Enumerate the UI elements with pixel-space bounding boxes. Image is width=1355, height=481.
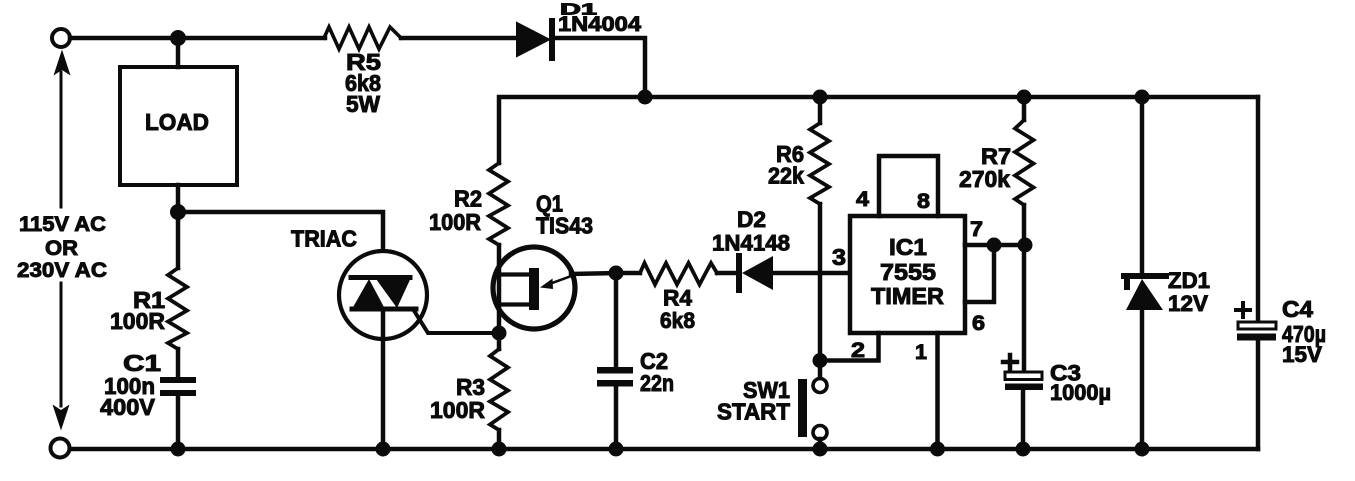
node TRIAC/rail xyxy=(376,442,391,457)
node pin7/R7 xyxy=(1018,238,1033,253)
wire SW1 to rail xyxy=(818,439,823,449)
node R3/rail xyxy=(492,442,507,457)
wire ZD1 to rail xyxy=(1140,310,1145,449)
svg-text:R2: R2 xyxy=(454,186,482,212)
svg-text:1N4004: 1N4004 xyxy=(558,13,641,36)
terminal top-left xyxy=(52,29,70,47)
transistor Q1 circle xyxy=(493,247,575,329)
node R6/rail xyxy=(813,90,828,105)
Q1 emitter arrow xyxy=(548,275,574,285)
capacitor C2 xyxy=(597,367,633,374)
resistor R1 xyxy=(168,268,187,349)
resistor R6 xyxy=(810,123,829,204)
svg-text:IC1: IC1 xyxy=(889,234,927,260)
diode D2 xyxy=(742,256,773,290)
node ZD1/rail xyxy=(1135,90,1150,105)
svg-text:TIMER: TIMER xyxy=(871,283,944,309)
arrow 115/230V lower xyxy=(60,283,63,406)
capacitor C1 xyxy=(160,377,196,383)
svg-text:270k: 270k xyxy=(959,166,1010,192)
svg-text:15V: 15V xyxy=(1282,342,1322,367)
svg-text:6k8: 6k8 xyxy=(660,308,695,333)
resistor R3 xyxy=(490,349,508,430)
zener ZD1 triangle xyxy=(1126,279,1163,310)
wire node to C2 xyxy=(614,273,619,367)
wire D2 to pin 3 xyxy=(773,271,850,276)
resistor R4 xyxy=(640,263,717,285)
resistor R5 xyxy=(324,27,401,49)
triac circle xyxy=(339,251,427,339)
node C2/rail xyxy=(609,442,624,457)
wire triac to rail xyxy=(381,310,386,449)
svg-text:TIS43: TIS43 xyxy=(536,213,593,239)
node C1/rail xyxy=(171,442,186,457)
capacitor C3 xyxy=(1005,372,1042,380)
node R7/rail xyxy=(1017,90,1032,105)
svg-text:TRIAC: TRIAC xyxy=(291,226,357,252)
wire C2 to rail xyxy=(614,387,619,449)
svg-text:START: START xyxy=(717,399,790,425)
wire to LOAD top xyxy=(176,38,181,67)
svg-text:3: 3 xyxy=(832,244,846,270)
wire C4 branch xyxy=(1256,97,1261,449)
switch SW1 bottom contact xyxy=(813,426,827,440)
load box xyxy=(120,67,237,185)
svg-text:8: 8 xyxy=(917,190,930,213)
svg-text:230V AC: 230V AC xyxy=(17,258,107,282)
triac triangle down xyxy=(375,278,411,309)
wire R1 to C1 xyxy=(176,349,181,377)
wire ZD1 top xyxy=(1140,97,1145,276)
terminal bottom-left xyxy=(51,439,70,458)
triac MT2 bar xyxy=(351,275,410,280)
wire LOAD bottom to node xyxy=(176,185,181,212)
svg-text:ZD1: ZD1 xyxy=(1168,268,1210,293)
svg-text:12V: 12V xyxy=(1168,291,1208,316)
svg-text:2: 2 xyxy=(851,339,865,362)
Q1 base bar xyxy=(529,268,539,310)
wire node to TRIAC xyxy=(178,212,383,278)
svg-text:115V AC: 115V AC xyxy=(19,212,106,236)
svg-text:22n: 22n xyxy=(640,370,674,396)
svg-text:1: 1 xyxy=(915,341,927,364)
diode D1 xyxy=(517,23,549,56)
svg-text:5W: 5W xyxy=(346,91,380,117)
triac gate wire xyxy=(413,309,499,333)
triac triangle up xyxy=(352,279,385,309)
Q1 base connectors xyxy=(499,275,529,305)
svg-text:22k: 22k xyxy=(768,163,804,189)
capacitor C3 plus xyxy=(1003,355,1017,369)
pin 7 wire xyxy=(965,243,1025,248)
wire R5 to D1 xyxy=(401,36,518,41)
wire R6 top xyxy=(818,97,823,123)
diode D1 cathode bar xyxy=(549,21,555,58)
pin 2 wire xyxy=(820,333,879,361)
svg-text:1000µ: 1000µ xyxy=(1050,380,1111,405)
switch SW1 top contact xyxy=(813,379,827,393)
wire R4 to D2 xyxy=(717,271,737,276)
resistor R7 xyxy=(1015,120,1034,205)
arrow 115/230V upper xyxy=(60,72,63,207)
svg-text:100R: 100R xyxy=(429,209,481,235)
wire R7 to C3 xyxy=(1022,205,1027,370)
switch SW1 blade xyxy=(798,379,807,437)
wire top rail left to R5 xyxy=(70,36,325,41)
node gate/R3 xyxy=(492,326,507,341)
diode D2 cathode bar xyxy=(736,256,742,290)
svg-text:1N4148: 1N4148 xyxy=(712,231,790,256)
svg-text:LOAD: LOAD xyxy=(145,109,209,135)
node ZD1/rail xyxy=(1135,442,1150,457)
svg-text:D2: D2 xyxy=(737,207,766,232)
svg-text:7: 7 xyxy=(970,218,983,241)
wire node down to R1 xyxy=(176,212,181,268)
ground rail xyxy=(70,447,1258,452)
triac MT1 bar xyxy=(352,307,416,312)
node D1/rail xyxy=(638,90,653,105)
node top wire / LOAD xyxy=(170,30,186,46)
pin4-pin8 strap xyxy=(879,156,938,216)
wire R7 top xyxy=(1022,97,1027,120)
node SW1/rail xyxy=(813,442,828,457)
node pin7/pin6 xyxy=(987,238,1002,253)
wire R6 to SW1 xyxy=(818,204,823,379)
node C3/rail xyxy=(1016,442,1031,457)
svg-text:400V: 400V xyxy=(100,394,156,420)
svg-text:7555: 7555 xyxy=(880,259,936,285)
capacitor C4 xyxy=(1238,322,1276,329)
wire node to R4 xyxy=(616,271,640,276)
node pin1/rail xyxy=(930,442,945,457)
node Q1/C2/R4 xyxy=(609,266,624,281)
node LOAD/TRIAC/R1 xyxy=(170,204,186,220)
IC U1 7555 box xyxy=(850,216,965,333)
wire C1 to ground rail xyxy=(176,396,181,449)
svg-text:4: 4 xyxy=(856,188,869,211)
pin 1 wire xyxy=(935,333,940,449)
wire Q1 emitter to node xyxy=(571,273,616,274)
pin 6 loop wire xyxy=(965,245,994,302)
svg-text:R4: R4 xyxy=(663,286,693,311)
zener ZD1 bar xyxy=(1124,273,1166,279)
svg-text:OR: OR xyxy=(45,236,78,260)
node R6/pin2 xyxy=(813,353,828,368)
svg-text:C4: C4 xyxy=(1282,296,1313,322)
capacitor C4 plus xyxy=(1236,303,1250,317)
svg-text:100R: 100R xyxy=(430,397,485,423)
wire R2 to node (through Q1) xyxy=(497,245,502,333)
svg-text:100R: 100R xyxy=(110,308,165,334)
wire D1 to +V rail corner xyxy=(555,38,645,97)
resistor R2 xyxy=(489,163,508,245)
svg-text:6: 6 xyxy=(972,312,985,335)
wire C3 to rail xyxy=(1021,390,1026,449)
wire +V rail xyxy=(499,97,1258,163)
